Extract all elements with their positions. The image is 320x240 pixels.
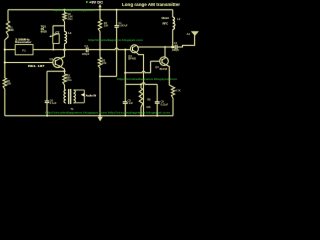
wire base node down xyxy=(124,50,126,85)
transistor Q4 BF495 xyxy=(160,57,169,66)
wire tank top xyxy=(64,22,66,32)
wire trimmer bottom xyxy=(52,44,54,50)
capacitor C1 xyxy=(115,25,119,27)
wire Q1 base xyxy=(5,62,53,64)
wire branch to trimmer xyxy=(53,25,65,27)
transformer T1 core xyxy=(68,89,70,104)
wire Q1 collector xyxy=(60,50,64,59)
wire left border upper xyxy=(7,10,9,21)
resonator F1 3.58MHz xyxy=(15,45,33,55)
wire Q3 emitter xyxy=(136,52,143,115)
wire top +9V rail xyxy=(8,9,173,11)
resistor R3 33K xyxy=(98,20,101,32)
inductor L1 xyxy=(65,32,67,44)
wire Q4 collector xyxy=(164,47,166,57)
inductor L2 RFC 10mH xyxy=(173,17,175,30)
resistor R2 xyxy=(63,13,66,22)
resistor R1 xyxy=(6,21,9,35)
wire R3 column top xyxy=(99,10,101,20)
wire A right of C3 to Q3 base, hop over C1 column xyxy=(89,48,131,50)
wire R7 to rail xyxy=(172,98,174,116)
wire C1 bottom link xyxy=(100,75,117,77)
wire C6 column xyxy=(46,71,48,100)
resistor R4 560 ohm xyxy=(64,71,66,74)
wire C1 column top xyxy=(116,10,118,26)
green watermark dot xyxy=(86,1,88,3)
trimmer capacitor CT xyxy=(53,34,59,44)
wire left border lower xyxy=(4,89,6,116)
antenna A1 xyxy=(191,32,198,36)
transformer T1 secondary xyxy=(74,90,76,103)
wire A: main horizontal node line y=49.6 xyxy=(5,49,15,51)
wire L2 bottom xyxy=(172,30,174,48)
wire bottom ground rail xyxy=(5,115,173,117)
transformer T1 primary xyxy=(65,89,66,92)
node Audio IN xyxy=(81,93,85,97)
wire R2 column from rail xyxy=(64,10,66,13)
resistor R6 xyxy=(3,78,6,89)
capacitor C6 0.1uF xyxy=(45,100,49,102)
wire B: collector/antenna line y=47 xyxy=(137,46,175,48)
resistor R7 xyxy=(171,87,174,98)
transistor Q1 BEL187 xyxy=(53,58,63,68)
wire A continuing right of F1 to C3 xyxy=(33,49,86,51)
wire to Q4 base with hop xyxy=(125,71,150,73)
transistor Q3 BF495 xyxy=(130,45,138,53)
junction dots on ground rail xyxy=(46,115,48,117)
wire L1 bottom to node xyxy=(64,44,66,50)
wire C4 to antenna xyxy=(177,35,195,48)
resistor R5 10K xyxy=(99,50,101,58)
capacitor C4 180pF xyxy=(174,45,176,50)
wire left border jog xyxy=(5,35,8,78)
preset resistor R8 xyxy=(140,84,142,88)
wire Q4 emitter + resistor R7 xyxy=(166,65,173,87)
wire lower network with hop xyxy=(125,83,157,85)
wire emitter node across xyxy=(47,70,65,72)
capacitor C5 xyxy=(124,84,126,101)
wire L2 column from rail xyxy=(172,10,174,17)
capacitor C3 180pF (series) xyxy=(85,47,87,52)
wire Q1 emitter xyxy=(60,67,64,72)
ground symbol xyxy=(98,117,103,121)
capacitor C8 xyxy=(156,84,158,101)
wire T1 secondary stubs to Audio IN xyxy=(74,89,85,91)
